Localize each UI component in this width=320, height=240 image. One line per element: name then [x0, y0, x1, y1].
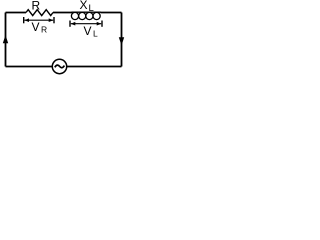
wire between resistor and inductor	[53, 12, 72, 14]
svg-text:V: V	[32, 20, 40, 34]
svg-text:R: R	[41, 24, 47, 34]
VR arrow left	[24, 18, 29, 22]
VR dimension: right bar	[53, 17, 55, 23]
VL dimension line	[71, 23, 101, 25]
VR arrow right	[49, 18, 54, 22]
svg-text:R: R	[32, 0, 41, 13]
VL dimension: left bar	[69, 21, 71, 27]
current arrow up (left wire)	[3, 35, 8, 43]
svg-text:L: L	[89, 3, 94, 14]
wire top-left segment	[6, 12, 27, 14]
current arrow down (right wire)	[119, 37, 124, 45]
VR dimension: left bar	[23, 17, 25, 23]
resistor R	[26, 10, 53, 16]
VL arrow right	[97, 22, 102, 26]
VR dimension line	[25, 19, 54, 21]
svg-text:V: V	[84, 24, 92, 38]
wire inductor to top-right corner	[101, 12, 122, 14]
AC source	[52, 59, 66, 73]
svg-text:L: L	[93, 28, 98, 38]
wire right vertical	[121, 13, 123, 67]
wire bottom-left segment	[6, 66, 53, 68]
inductor XL	[71, 12, 100, 19]
VL arrow left	[71, 22, 76, 26]
VL dimension: right bar	[101, 21, 103, 27]
svg-text:X: X	[80, 0, 88, 12]
background	[0, 0, 129, 80]
wire bottom-right segment	[67, 66, 122, 68]
wire left vertical	[5, 13, 7, 67]
